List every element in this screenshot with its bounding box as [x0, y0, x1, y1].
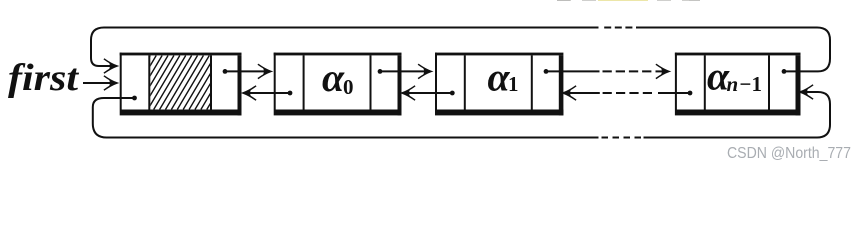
arrowhead: wrap next into first node: [104, 59, 118, 73]
node a1 box: [435, 53, 437, 110]
svg-text:first: first: [8, 57, 80, 99]
node a0 field divider 1: [303, 55, 305, 109]
wire: a0.next -> a1: [380, 70, 426, 72]
dot: head prev field: [132, 96, 137, 101]
wire: a0.prev -> head: [248, 92, 290, 94]
node a1 field divider 2: [531, 55, 533, 109]
wire: first node prev pointer wrap-around (bottom loop): [93, 98, 599, 138]
svg-text:−1: −1: [740, 72, 762, 96]
wire: first pointer arrow: [83, 82, 112, 84]
node a1 field divider 1: [464, 55, 466, 109]
node an-1 box: [675, 53, 677, 110]
wire: bottom edge dashed gap section: [602, 137, 642, 139]
wire: top edge dashed gap section: [601, 27, 643, 29]
dot: a0 prev field: [288, 91, 293, 96]
wire: a1.prev -> a0: [407, 92, 452, 94]
arrowhead: an-1.prev: [562, 86, 576, 100]
wire: last node next pointer wrap-around (top loop): [643, 28, 830, 72]
node an-1 field divider 1: [704, 55, 706, 109]
wire: an-1.prev -> a1 (solid part, dashed middle): [658, 92, 690, 94]
node a0 box: [274, 53, 276, 110]
cropped dashed line at very top edge: [557, 0, 700, 2]
arrowhead: a1.next: [656, 64, 670, 78]
node a0 field divider 2: [370, 55, 372, 109]
node an-1 field divider 2: [768, 55, 770, 109]
arrowhead: first pointer: [104, 76, 118, 90]
dot: head next field: [223, 69, 228, 74]
svg-text:0: 0: [343, 75, 354, 99]
arrowhead: a0.next: [418, 64, 432, 78]
arrowhead: wrap prev into last node: [799, 85, 813, 99]
dot: an-1 prev field: [688, 91, 693, 96]
wire: head.next -> a0: [225, 70, 266, 72]
svg-text:α: α: [322, 55, 345, 100]
arrowhead: head.next: [258, 64, 272, 78]
arrowhead: a1.prev: [401, 86, 415, 100]
dot: a1 prev field: [450, 91, 455, 96]
node head box: [120, 53, 122, 110]
dot: a1 next field: [544, 69, 549, 74]
wire: a1.next -> an-1 (solid part, dashed middle): [546, 70, 600, 72]
wire: top edge left part down to arrow into first node: [91, 28, 599, 67]
dot: a0 next field: [378, 69, 383, 74]
hatch fill of head node data field: [118, 56, 244, 110]
svg-text:n: n: [727, 72, 739, 96]
node pointer dots: [132, 69, 786, 100]
dot: an-1 next field: [782, 69, 787, 74]
node head field divider 2: [210, 55, 212, 109]
wire: bottom edge right part up to arrow into last node: [644, 92, 831, 138]
svg-text:CSDN @North_777: CSDN @North_777: [727, 145, 851, 162]
arrowhead: a0.prev: [242, 86, 256, 100]
svg-text:1: 1: [508, 72, 519, 96]
node head field divider 1: [148, 55, 150, 109]
